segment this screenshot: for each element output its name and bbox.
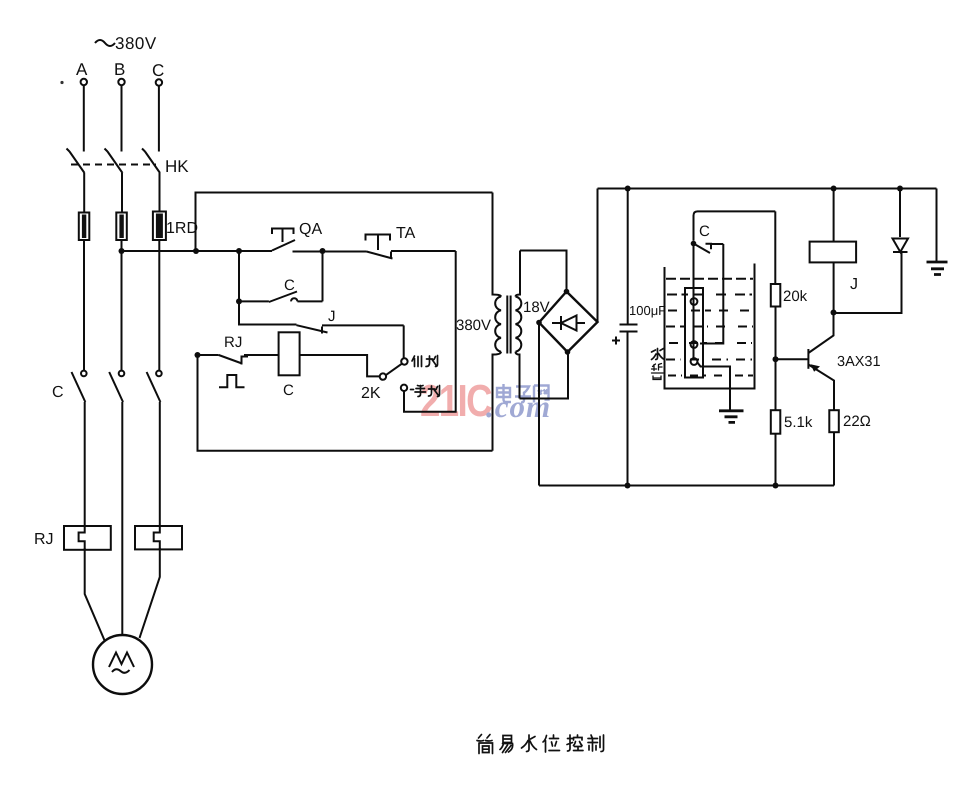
junction dot QA out (320, 248, 326, 254)
wire bridge plus up to rail (597, 189, 599, 323)
svg-text:HK: HK (165, 157, 189, 176)
svg-text:TA: TA (396, 225, 416, 242)
junction dot C-aux (236, 298, 242, 304)
wire A heater to motor (85, 548, 105, 641)
switch 2K selector (380, 358, 408, 391)
pushbutton TA (366, 235, 393, 259)
junction dot bottom rail r2 (773, 483, 779, 489)
watermark dianziwang (497, 384, 549, 403)
wire box top edge (196, 193, 493, 252)
svg-text:100μF: 100μF (629, 303, 666, 318)
contact RJ thermal normally-closed (198, 355, 279, 387)
junction dot capacitor top (625, 186, 631, 192)
wire box bottom edge (198, 355, 493, 451)
wire C heater to motor (140, 548, 160, 638)
contactor C pole C contact (147, 371, 162, 402)
wire phase B drop (121, 85, 123, 151)
title zhi (588, 735, 604, 752)
svg-text:22Ω: 22Ω (843, 413, 871, 430)
wire B blade to fuse (121, 173, 123, 213)
electrode terminal 1 (691, 298, 698, 305)
wire A contact down (84, 402, 86, 525)
electrode terminal 2 (691, 341, 698, 348)
svg-text:RJ: RJ (224, 334, 242, 351)
switch HK linkage dashed (71, 164, 156, 166)
svg-text:J: J (850, 276, 858, 293)
contact C auxiliary (239, 292, 323, 303)
resistor R3 22ohm (829, 410, 839, 485)
wire main control feed y251 (122, 250, 456, 253)
svg-text:C: C (152, 61, 164, 80)
svg-text:C: C (52, 384, 64, 401)
wire J branch drop (239, 301, 297, 324)
svg-text:QA: QA (299, 221, 322, 238)
SEC-E: watermark and title (477, 735, 604, 754)
switch HK pole B blade (105, 149, 123, 174)
svg-text:C: C (699, 223, 710, 240)
title jian (477, 735, 493, 754)
resistor R2 5.1k (771, 410, 781, 485)
svg-text:C: C (284, 277, 295, 294)
wire C contact down (159, 402, 161, 525)
wire C-aux branch left drop (238, 251, 240, 301)
SEC-C: transformer and bridge (456, 189, 598, 486)
ground G2 tank (719, 411, 744, 423)
resistor R1 20k (771, 211, 781, 410)
water surface dashes (666, 279, 753, 376)
svg-text:J: J (328, 308, 336, 325)
wire A fuse to contact (83, 240, 85, 370)
wire coil to 2K (300, 355, 380, 376)
junction dot QA in (236, 248, 242, 254)
wire C-aux branch right rise (322, 251, 324, 301)
junction dot base node (773, 356, 779, 362)
electrode terminal 3 (691, 358, 698, 365)
transformer T primary winding (493, 193, 502, 451)
transformer T secondary winding (516, 251, 522, 399)
contactor C pole A contact (72, 371, 87, 402)
junction dot box left top (193, 248, 199, 254)
electrode holder (685, 244, 703, 378)
wire secondary bottom to bridge (520, 355, 569, 399)
junction dot relay branch (831, 186, 837, 192)
wire B contact down to motor (121, 402, 123, 635)
svg-text:3AX31: 3AX31 (837, 354, 881, 370)
wire to level contact loop (694, 211, 776, 240)
switch HK pole A blade (67, 149, 85, 174)
svg-text:2K: 2K (361, 385, 381, 402)
node B (114, 60, 125, 85)
coil C contactor (279, 332, 300, 375)
fuse 1RD phase C (153, 212, 166, 241)
contactor C pole B contact (109, 371, 124, 402)
thermal relay RJ heater phase A (64, 525, 111, 550)
wire collector to diode (834, 253, 902, 314)
SEC-B: control box (195, 193, 493, 451)
svg-text:A: A (76, 60, 88, 79)
SEC-A: top-left three-phase supply (34, 34, 456, 694)
wire phase C drop (158, 86, 160, 152)
svg-text:380V: 380V (456, 317, 491, 334)
junction dot diode branch (897, 186, 903, 192)
diode D1 (893, 189, 909, 253)
transistor Q1 3AX31 (776, 313, 835, 411)
relay J coil (810, 189, 857, 313)
wire contact to electrode 2 (700, 244, 723, 344)
SEC-D: dc right section (539, 186, 948, 489)
pushbutton QA (272, 229, 295, 251)
label water tank (652, 349, 664, 380)
title shui (522, 735, 537, 752)
wire dc bottom rail (539, 485, 834, 487)
wire manual position to TA branch (404, 251, 456, 412)
wire C blade to fuse (159, 173, 161, 213)
wire C fuse to tap (158, 240, 160, 370)
thermal relay RJ heater phase C (135, 525, 182, 549)
ground G1 top right (927, 189, 948, 275)
junction dot collector node (831, 310, 837, 316)
junction dot contact C moving (691, 241, 697, 247)
wire J line to switch (403, 325, 405, 358)
contact C water-level hold (694, 244, 724, 254)
svg-text:B: B (114, 60, 125, 79)
label manual position (411, 386, 440, 397)
label ~380V supply (95, 34, 157, 53)
wire B fuse to contact (121, 240, 123, 370)
wire phase A drop (83, 85, 85, 151)
motor M (93, 635, 152, 694)
junction dot B tap (119, 248, 125, 254)
junction dot RJ line left (195, 352, 201, 358)
transformer T core (507, 296, 510, 354)
svg-text:20k: 20k (783, 288, 808, 305)
fuse 1RD phase B (116, 213, 127, 241)
svg-text:5.1k: 5.1k (784, 414, 813, 431)
svg-text:RJ: RJ (34, 531, 54, 548)
title yi (500, 736, 513, 753)
node C (152, 61, 164, 86)
svg-text:1RD: 1RD (166, 220, 198, 237)
title kong (567, 735, 583, 751)
fuse 1RD phase A (79, 213, 90, 241)
title wei (543, 735, 560, 752)
wire dc top rail (598, 188, 937, 190)
switch HK pole C blade (142, 149, 160, 174)
contact J relay (297, 325, 404, 333)
node A (60, 60, 88, 85)
capacitor C1 100uF (612, 189, 638, 486)
wire bridge minus down to rail (538, 323, 540, 486)
label auto position (412, 356, 438, 367)
wire secondary top to bridge (520, 251, 567, 290)
water tank walls (665, 264, 755, 389)
wire electrode 3 to ground (697, 363, 730, 410)
wire A blade to fuse (83, 173, 85, 213)
rectifier bridge U1 (536, 289, 597, 355)
svg-text:C: C (283, 382, 294, 399)
svg-text:380V: 380V (115, 34, 157, 53)
junction dot cap bottom (625, 483, 631, 489)
